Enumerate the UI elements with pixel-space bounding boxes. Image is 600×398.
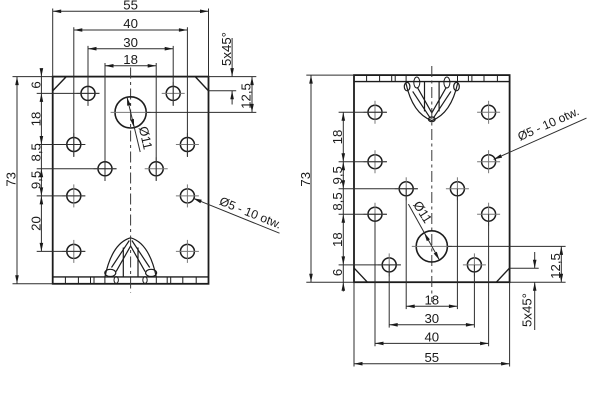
dimension 12,5 right-plate [448, 246, 566, 282]
left plate top-right chamfer [195, 77, 208, 91]
right hole R1 right [463, 253, 486, 276]
leader O11 right-plate [408, 198, 440, 261]
svg-text:18: 18 [330, 232, 345, 247]
svg-text:18: 18 [330, 130, 345, 145]
dimension 18 top left-plate [105, 52, 156, 68]
left flange tick marks [65, 277, 196, 284]
left hole R4 left [62, 184, 85, 207]
right hole R4 left [364, 150, 387, 173]
svg-text:40: 40 [424, 330, 439, 345]
right plate bottom-right chamfer [496, 268, 509, 282]
right hole R4 right [477, 150, 500, 173]
right plate outline [354, 75, 510, 282]
dimension 5x45 right-plate [510, 252, 539, 330]
right flange prong hole ellipses [414, 77, 450, 88]
chain extension lines right-plate [339, 112, 418, 265]
svg-text:6: 6 [330, 269, 345, 276]
extension lines for bottom dims right-plate [354, 189, 510, 367]
svg-text:18: 18 [28, 112, 43, 127]
right hole R1 left [378, 253, 401, 276]
svg-text:55: 55 [123, 0, 138, 13]
svg-text:12,5: 12,5 [548, 253, 563, 279]
left hole R1 right [162, 82, 185, 105]
svg-text:40: 40 [123, 16, 138, 31]
right hole R2 right [477, 203, 500, 226]
left pressed rib (tent) [105, 238, 157, 277]
chain labels left-plate [28, 81, 43, 231]
chain extension lines left-plate [37, 93, 117, 251]
dimension 73 left-plate [4, 77, 53, 284]
left hole R1 left [77, 82, 100, 105]
left hole R5 right [176, 240, 199, 263]
leader O11 left-plate [127, 97, 156, 152]
dimension 30 top left-plate [88, 35, 173, 51]
right hole R5 right [477, 101, 500, 124]
right pressed rib (tent, inverted) [404, 82, 459, 122]
svg-text:12,5: 12,5 [239, 83, 254, 109]
svg-text:5x45°: 5x45° [520, 293, 535, 327]
right plate bottom-left chamfer [354, 268, 367, 282]
left flange prong hole ellipses [114, 277, 147, 284]
right flange tick marks [367, 75, 498, 82]
svg-text:18: 18 [123, 52, 138, 67]
dimension 5x45 left-plate [209, 32, 237, 104]
dimension 40 bottom right-plate [375, 330, 489, 346]
left hole R2 right [176, 133, 199, 156]
dimension 55 bottom right-plate [354, 350, 510, 366]
svg-text:55: 55 [424, 350, 439, 365]
dimension 73 right-plate [298, 75, 354, 282]
svg-text:73: 73 [298, 172, 313, 187]
right hole R3 right [446, 177, 469, 200]
svg-text:6: 6 [28, 81, 43, 88]
left plate flange strip line [53, 276, 209, 278]
svg-text:8,5: 8,5 [330, 192, 345, 210]
left hole R3 right [145, 157, 168, 180]
right big hole O11 [412, 231, 452, 262]
dimension 40 top left-plate [74, 16, 188, 32]
right hole R3 left [395, 177, 418, 200]
dimension 18 bottom right-plate [406, 293, 457, 309]
svg-text:18: 18 [424, 293, 439, 308]
left hole R3 left [94, 157, 117, 180]
right plate flange strip line [354, 81, 510, 83]
chain dimension line right-plate (18,9.5,8.5,18,6) [342, 112, 346, 291]
dimension 12,5 left-plate [147, 77, 257, 113]
dimension 55 top left-plate [53, 0, 209, 13]
left hole R5 left [62, 240, 85, 263]
right hole R5 left [364, 101, 387, 124]
svg-text:9,5: 9,5 [330, 166, 345, 184]
extension lines for top dims left-plate [53, 9, 209, 182]
svg-text:5x45°: 5x45° [219, 32, 234, 66]
chain dimension line left-plate (6,18,8.5,9.5,20) [40, 68, 44, 251]
svg-text:30: 30 [123, 35, 138, 50]
svg-text:30: 30 [424, 311, 439, 326]
left big hole O11 [111, 97, 151, 128]
left plate top-left chamfer [53, 77, 66, 91]
right hole R2 left [364, 203, 387, 226]
chain labels right-plate [330, 130, 345, 276]
svg-text:73: 73 [4, 172, 19, 187]
left plate vertical centerline [130, 68, 132, 293]
svg-text:8,5: 8,5 [28, 143, 43, 161]
right plate vertical centerline [431, 66, 433, 302]
leader O5 - 10 otw. left-plate [193, 194, 283, 233]
leader O5 - 10 otw. right-plate [494, 104, 587, 159]
left plate outline [53, 77, 209, 284]
dimension 30 bottom right-plate [389, 311, 474, 327]
svg-text:9,5: 9,5 [28, 171, 43, 189]
left hole R4 right [176, 184, 199, 207]
svg-text:20: 20 [28, 216, 43, 231]
left hole R2 left [62, 133, 85, 156]
